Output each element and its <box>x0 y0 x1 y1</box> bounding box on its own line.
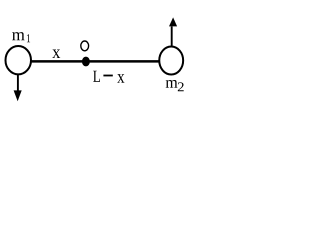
label m1: subscript 1 <box>27 34 30 42</box>
label m2: m <box>166 80 178 88</box>
mass m2 ball <box>159 47 183 75</box>
wire: lever rod <box>32 60 160 63</box>
node O: pivot dot <box>82 57 90 67</box>
label L-x: minus <box>103 75 112 77</box>
label m1: m <box>12 32 25 40</box>
label O (pivot) <box>81 41 89 51</box>
label x (left arm) <box>52 49 60 58</box>
label L-x: x <box>117 74 124 83</box>
label L-x: L <box>93 71 100 82</box>
force arrow m1 (downward): head <box>14 90 22 101</box>
mass m1 ball <box>6 46 32 74</box>
force arrow m1 (downward): shaft <box>17 74 19 91</box>
force arrow m2 (upward): shaft <box>171 27 173 47</box>
label m2: subscript 2 <box>178 82 184 91</box>
force arrow m2 (upward): head <box>169 17 177 26</box>
